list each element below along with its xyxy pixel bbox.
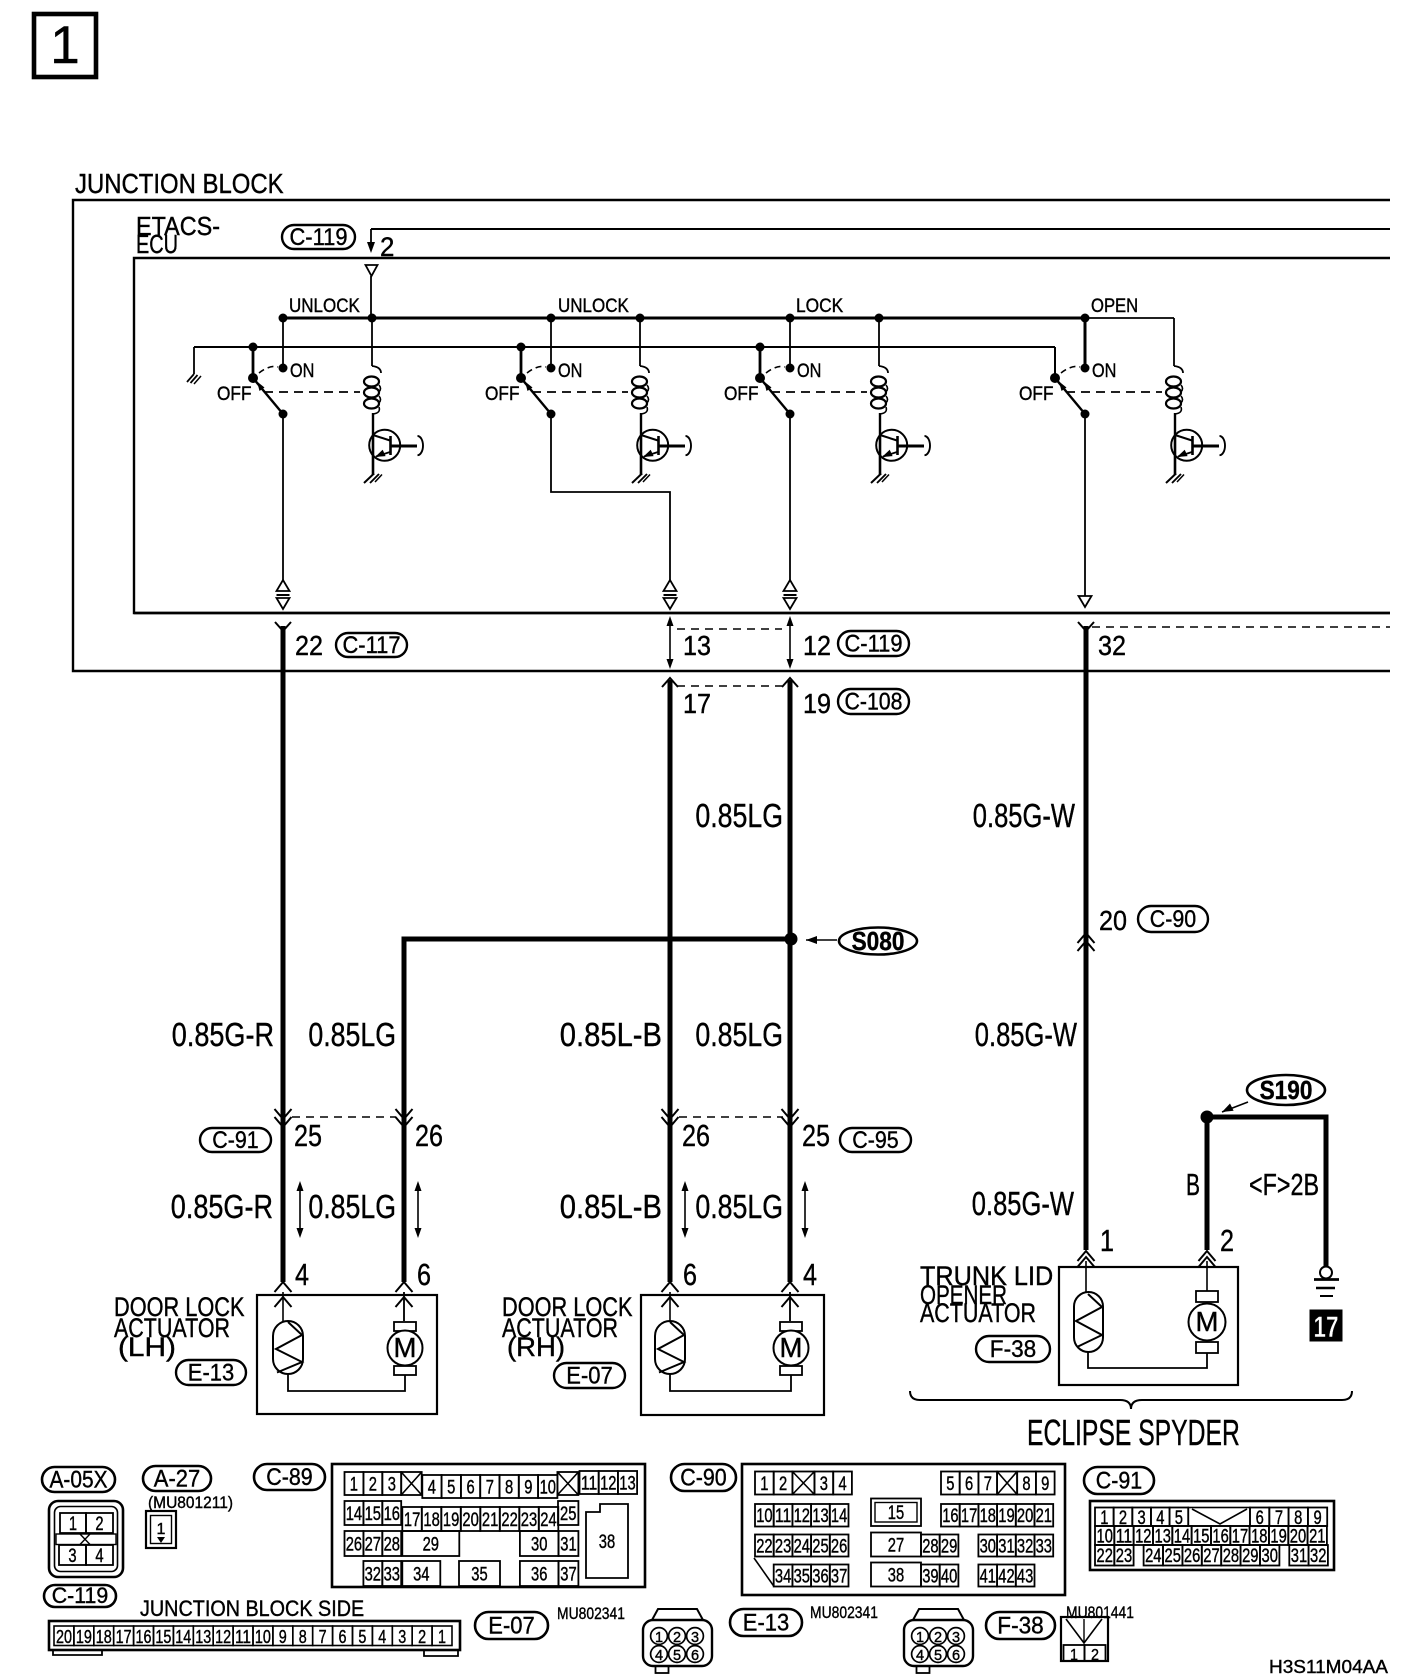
pin 2 down arrow	[367, 229, 394, 262]
connector C-89 pinout	[332, 1464, 645, 1587]
svg-text:ECLIPSE SPYDER: ECLIPSE SPYDER	[1027, 1412, 1240, 1453]
svg-text:S190: S190	[1260, 1077, 1313, 1105]
pass-through triangles x=670	[664, 580, 677, 609]
svg-text:31: 31	[560, 1535, 576, 1556]
svg-text:25: 25	[802, 1119, 830, 1153]
svg-text:18: 18	[423, 1510, 439, 1531]
svg-text:9: 9	[1041, 1474, 1049, 1495]
bus switch common (lower)	[194, 346, 1055, 348]
transistor Q2 ground	[632, 474, 650, 484]
svg-text:40: 40	[941, 1567, 957, 1588]
svg-text:C-119: C-119	[52, 1583, 109, 1608]
page number box 1	[34, 14, 96, 77]
svg-text:25: 25	[1165, 1546, 1181, 1567]
svg-text:4: 4	[839, 1474, 848, 1495]
svg-text:MU802341: MU802341	[557, 1604, 625, 1623]
transistor Q1	[369, 430, 423, 475]
svg-text:32: 32	[1310, 1546, 1326, 1567]
ground (bus left end)	[187, 374, 201, 384]
pass-through triangle relay4	[1079, 596, 1092, 607]
svg-text:33: 33	[384, 1565, 400, 1586]
relay 3 linkage dashed	[771, 391, 867, 393]
svg-text:0.85L-B: 0.85L-B	[560, 1017, 662, 1054]
wire relay1 output	[282, 414, 284, 581]
wire bus to ground	[193, 347, 195, 374]
connector C-89 capsule	[254, 1464, 325, 1491]
svg-text:27: 27	[888, 1536, 904, 1557]
svg-text:ACTUATOR: ACTUATOR	[920, 1298, 1036, 1328]
svg-text:28: 28	[1223, 1546, 1239, 1567]
connector C-90 pinout	[742, 1464, 1065, 1595]
relay 4 linkage dashed	[1066, 391, 1162, 393]
svg-text:ON: ON	[290, 361, 314, 382]
double arrow wire2	[415, 1181, 422, 1238]
relay 2 ON contact wire	[547, 314, 556, 368]
svg-text:39: 39	[922, 1567, 938, 1588]
svg-text:42: 42	[998, 1567, 1014, 1588]
svg-text:2: 2	[1220, 1224, 1234, 1258]
svg-text:20: 20	[1099, 905, 1127, 936]
svg-text:27: 27	[1203, 1546, 1219, 1567]
relay 2 switch blade	[516, 373, 556, 419]
svg-text:26: 26	[831, 1537, 847, 1558]
wire 19 (thick) below block	[782, 678, 798, 1282]
svg-text:UNLOCK: UNLOCK	[289, 295, 360, 317]
connector C-91 capsule (bottom)	[1084, 1467, 1154, 1494]
svg-text:A-05X: A-05X	[50, 1466, 108, 1493]
connector E-13 pinout (round)	[904, 1609, 973, 1673]
svg-text:18: 18	[96, 1626, 112, 1647]
wire 32 (thick) from block	[1078, 622, 1094, 1250]
svg-text:3: 3	[691, 1630, 699, 1646]
svg-text:C-95: C-95	[852, 1127, 898, 1154]
double arrow wire3	[682, 1181, 689, 1238]
connector A-27 pinout	[146, 1511, 176, 1548]
svg-text:2: 2	[418, 1626, 426, 1647]
svg-text:0.85L-B: 0.85L-B	[560, 1189, 662, 1226]
wire relay4 output	[1084, 414, 1086, 596]
motor M RH	[774, 1322, 809, 1375]
chevrons into connector x=283	[275, 1109, 292, 1127]
svg-text:22: 22	[501, 1510, 517, 1531]
relay 4 switch blade	[1050, 373, 1090, 419]
svg-text:20: 20	[56, 1626, 72, 1647]
relay 2 ON contact	[547, 361, 583, 382]
svg-text:30: 30	[1262, 1546, 1278, 1567]
svg-text:17: 17	[404, 1510, 420, 1531]
svg-text:9: 9	[279, 1626, 287, 1647]
svg-text:37: 37	[831, 1567, 847, 1588]
svg-text:13: 13	[683, 630, 711, 661]
svg-text:ON: ON	[797, 361, 821, 382]
connector E-13 capsule (bottom)	[730, 1609, 802, 1636]
wire pin6 internal LH	[403, 1292, 405, 1321]
svg-text:M: M	[780, 1332, 803, 1363]
svg-text:33: 33	[1036, 1537, 1052, 1558]
svg-text:6: 6	[417, 1258, 431, 1292]
svg-text:0.85LG: 0.85LG	[695, 1189, 783, 1226]
svg-text:34: 34	[775, 1567, 792, 1588]
svg-text:14: 14	[175, 1626, 191, 1647]
svg-text:25: 25	[294, 1119, 322, 1153]
connector C-119 (row)	[838, 630, 909, 657]
relay 3 switch blade	[755, 373, 795, 419]
svg-text:26: 26	[415, 1119, 443, 1153]
svg-text:8: 8	[299, 1626, 307, 1647]
pass-through triangles x=283	[277, 580, 290, 609]
svg-text:C-89: C-89	[266, 1464, 312, 1491]
resistor trunk	[1074, 1292, 1103, 1352]
trunk pin chevrons 2	[1199, 1251, 1216, 1291]
svg-text:0.85LG: 0.85LG	[695, 798, 783, 835]
resistor LH (lock solenoid)	[273, 1321, 303, 1374]
svg-text:10: 10	[540, 1478, 556, 1499]
svg-text:C-119: C-119	[845, 630, 903, 657]
svg-text:1: 1	[69, 1514, 77, 1535]
svg-text:C-91: C-91	[212, 1127, 258, 1154]
svg-text:E-13: E-13	[743, 1609, 789, 1636]
svg-text:MU801441: MU801441	[1066, 1603, 1134, 1622]
connector A-05X pinout	[49, 1501, 123, 1577]
svg-text:2: 2	[934, 1630, 942, 1646]
svg-text:30: 30	[980, 1537, 996, 1558]
svg-text:4: 4	[428, 1478, 437, 1499]
relay 1 coil	[364, 314, 381, 436]
motor M LH	[388, 1322, 423, 1375]
svg-text:35: 35	[794, 1567, 810, 1588]
pass-through triangles x=790	[784, 580, 797, 609]
svg-text:1: 1	[157, 1521, 166, 1538]
svg-text:13: 13	[619, 1474, 635, 1495]
ground ref 17 box	[1310, 1310, 1342, 1344]
svg-text:0.85LG: 0.85LG	[695, 1017, 783, 1054]
svg-text:2: 2	[779, 1474, 787, 1495]
relay 3 switch throw dashed arc	[766, 366, 785, 373]
svg-text:26: 26	[682, 1119, 710, 1153]
svg-text:12: 12	[794, 1506, 810, 1527]
double arrow wire4	[802, 1181, 809, 1238]
svg-text:5: 5	[447, 1478, 455, 1499]
svg-text:5: 5	[673, 1648, 681, 1664]
connector F-38 pinout	[1061, 1617, 1108, 1664]
relay 3 ON contact	[786, 361, 822, 382]
svg-text:1: 1	[655, 1630, 663, 1646]
svg-text:17: 17	[961, 1506, 977, 1527]
connector E-13 capsule	[176, 1359, 246, 1386]
svg-text:F-38: F-38	[990, 1336, 1036, 1363]
splice S190	[1201, 1075, 1326, 1124]
svg-text:(LH): (LH)	[118, 1332, 176, 1362]
svg-text:ON: ON	[1092, 361, 1116, 382]
wire 12 pass-through	[787, 616, 794, 669]
svg-text:1: 1	[1100, 1224, 1114, 1258]
svg-text:4: 4	[916, 1648, 924, 1664]
svg-text:OFF: OFF	[724, 384, 759, 405]
connector C-91 pinout	[1090, 1501, 1334, 1570]
svg-text:16: 16	[136, 1626, 152, 1647]
svg-text:6: 6	[952, 1648, 960, 1664]
svg-text:LOCK: LOCK	[796, 295, 843, 317]
svg-text:5: 5	[358, 1626, 366, 1647]
svg-text:10: 10	[255, 1626, 271, 1647]
svg-text:6: 6	[965, 1474, 973, 1495]
svg-text:8: 8	[505, 1478, 513, 1499]
svg-text:16: 16	[942, 1506, 958, 1527]
connector F-38 capsule	[976, 1336, 1050, 1363]
svg-text:0.85G-W: 0.85G-W	[973, 798, 1075, 835]
connector E-07 capsule (bottom)	[475, 1612, 548, 1639]
bus upper thin segment to relay4 coil	[1085, 317, 1174, 319]
connector C-119 (top)	[282, 224, 355, 251]
svg-text:6: 6	[339, 1626, 347, 1647]
connector C-108	[838, 688, 909, 715]
svg-text:JUNCTION BLOCK SIDE: JUNCTION BLOCK SIDE	[140, 1596, 364, 1621]
door lock actuator LH box	[257, 1295, 437, 1414]
relay 1 switch blade	[248, 373, 288, 419]
svg-text:43: 43	[1017, 1567, 1033, 1588]
svg-text:MU802341: MU802341	[810, 1603, 878, 1622]
svg-text:35: 35	[471, 1565, 487, 1586]
svg-text:38: 38	[888, 1566, 904, 1587]
svg-text:29: 29	[1242, 1546, 1258, 1567]
relay 1 ON contact wire	[279, 314, 288, 368]
svg-text:25: 25	[812, 1537, 828, 1558]
wire relay3 output	[789, 414, 791, 581]
label ETACS-ECU	[136, 213, 220, 259]
connector A-27 capsule	[143, 1465, 211, 1492]
svg-text:16: 16	[384, 1504, 400, 1525]
chevrons into connector x=670	[662, 1109, 679, 1127]
dashed connector line C-108 row	[677, 685, 782, 687]
door lock actuator RH box	[641, 1295, 824, 1415]
svg-text:4: 4	[95, 1546, 104, 1567]
svg-text:6: 6	[683, 1258, 697, 1292]
connector F-38 capsule (bottom)	[986, 1612, 1055, 1639]
relay 4 ON contact	[1081, 361, 1117, 382]
svg-text:JUNCTION BLOCK: JUNCTION BLOCK	[75, 168, 284, 199]
svg-text:17: 17	[683, 688, 711, 719]
junction block outer box	[73, 200, 1390, 671]
svg-text:0.85LG: 0.85LG	[308, 1189, 396, 1226]
svg-text:1: 1	[50, 16, 79, 75]
svg-text:22: 22	[1097, 1546, 1113, 1567]
transistor Q4	[1171, 430, 1225, 475]
dashed connector line C-119 row	[677, 628, 782, 630]
svg-text:7: 7	[319, 1626, 327, 1647]
bus UNLOCK/LOCK/OPEN (upper)	[282, 317, 1085, 320]
svg-text:4: 4	[378, 1626, 386, 1647]
svg-text:2: 2	[95, 1514, 103, 1535]
svg-text:24: 24	[794, 1537, 811, 1558]
brace ECLIPSE SPYDER	[910, 1391, 1352, 1409]
dashed connector line C-91	[292, 1116, 396, 1118]
svg-text:4: 4	[803, 1258, 817, 1292]
svg-text:10: 10	[756, 1506, 772, 1527]
transistor Q4 ground	[1166, 474, 1184, 484]
svg-text:18: 18	[980, 1506, 996, 1527]
svg-text:19: 19	[76, 1626, 92, 1647]
svg-text:M: M	[394, 1332, 417, 1363]
relay 2 linkage dashed	[532, 391, 628, 393]
svg-text:OPEN: OPEN	[1091, 295, 1138, 317]
svg-text:2: 2	[1091, 1647, 1099, 1664]
svg-text:11: 11	[235, 1626, 251, 1647]
svg-text:22: 22	[295, 630, 323, 661]
svg-text:14: 14	[346, 1504, 363, 1525]
svg-text:32: 32	[365, 1565, 381, 1586]
splice S190 wires (thick)	[1207, 1117, 1326, 1267]
svg-text:8: 8	[1022, 1474, 1030, 1495]
svg-text:C-90: C-90	[1150, 906, 1196, 933]
relay 3 coil	[871, 314, 888, 436]
svg-text:6: 6	[467, 1478, 475, 1499]
svg-text:29: 29	[941, 1537, 957, 1558]
svg-text:12: 12	[600, 1474, 616, 1495]
svg-text:11: 11	[775, 1506, 791, 1527]
svg-text:E-07: E-07	[566, 1362, 612, 1389]
wire 22 (thick) from block	[275, 622, 291, 1282]
wire pin2 to coil bus	[370, 276, 372, 318]
svg-text:7: 7	[984, 1474, 992, 1495]
svg-text:19: 19	[443, 1510, 459, 1531]
svg-text:11: 11	[581, 1474, 597, 1495]
connector E-07 capsule	[554, 1362, 625, 1389]
svg-text:(RH): (RH)	[507, 1332, 565, 1362]
svg-text:19: 19	[998, 1506, 1014, 1527]
wire relay2 output (jog)	[551, 414, 670, 581]
svg-text:34: 34	[413, 1565, 430, 1586]
svg-text:20: 20	[462, 1510, 478, 1531]
dashed line right of relay4 wire	[1092, 626, 1390, 628]
svg-text:12: 12	[803, 630, 831, 661]
svg-text:OFF: OFF	[217, 384, 252, 405]
svg-text:13: 13	[195, 1626, 211, 1647]
svg-text:A-27: A-27	[154, 1465, 200, 1492]
trunk lid opener labels	[920, 1261, 1053, 1328]
wire RH internal	[670, 1374, 791, 1391]
trunk pin chevrons 1	[1078, 1251, 1095, 1292]
svg-text:3: 3	[820, 1474, 828, 1495]
svg-text:19: 19	[803, 688, 831, 719]
wire 13 pass-through	[667, 616, 674, 669]
svg-text:28: 28	[384, 1535, 400, 1556]
double arrow wire1	[297, 1181, 304, 1238]
svg-text:1: 1	[1070, 1647, 1078, 1664]
svg-text:4: 4	[655, 1648, 663, 1664]
svg-text:0.85G-W: 0.85G-W	[972, 1186, 1074, 1223]
svg-text:OFF: OFF	[1019, 384, 1054, 405]
svg-text:15: 15	[365, 1504, 381, 1525]
svg-text:26: 26	[1184, 1546, 1200, 1567]
inner box bottom edge	[134, 612, 1390, 614]
wire from C-119 pin 2	[371, 228, 1390, 230]
svg-text:1: 1	[438, 1626, 446, 1647]
ETACS-ECU inner box	[134, 258, 1390, 613]
pin chevrons x=283	[275, 1282, 292, 1321]
svg-text:3: 3	[952, 1630, 960, 1646]
motor M trunk	[1189, 1291, 1226, 1353]
relay 4 coil	[1166, 318, 1183, 435]
relay 3 ON contact wire	[786, 314, 795, 368]
svg-text:<F>2B: <F>2B	[1249, 1168, 1319, 1202]
svg-text:5: 5	[946, 1474, 954, 1495]
svg-text:17: 17	[116, 1626, 132, 1647]
svg-text:0.85G-R: 0.85G-R	[171, 1189, 273, 1226]
svg-text:41: 41	[980, 1567, 996, 1588]
svg-text:3: 3	[388, 1475, 396, 1496]
svg-text:22: 22	[756, 1537, 772, 1558]
trunk lid opener actuator box	[1059, 1267, 1238, 1385]
svg-text:15: 15	[155, 1626, 171, 1647]
svg-text:2: 2	[673, 1630, 681, 1646]
dashed connector line C-95	[679, 1116, 783, 1118]
connector A-05X capsule	[42, 1466, 115, 1493]
svg-text:C-119: C-119	[290, 224, 348, 251]
pin chevrons x=790	[782, 1282, 799, 1321]
svg-text:30: 30	[531, 1535, 547, 1556]
svg-text:36: 36	[531, 1565, 547, 1586]
wire pin4 internal RH	[789, 1292, 791, 1321]
svg-text:9: 9	[524, 1478, 532, 1499]
transistor Q3	[876, 430, 930, 475]
connector C-90 capsule	[671, 1464, 736, 1491]
connector C-90 (row)	[1138, 906, 1208, 933]
svg-text:5: 5	[934, 1648, 942, 1664]
splice S080	[785, 928, 918, 957]
svg-text:7: 7	[486, 1478, 494, 1499]
svg-text:37: 37	[560, 1565, 576, 1586]
svg-text:C-91: C-91	[1096, 1467, 1142, 1494]
svg-text:17: 17	[1314, 1311, 1339, 1344]
svg-text:36: 36	[812, 1567, 828, 1588]
svg-text:13: 13	[812, 1506, 828, 1527]
svg-text:27: 27	[365, 1535, 381, 1556]
svg-text:0.85LG: 0.85LG	[308, 1017, 396, 1054]
svg-text:15: 15	[888, 1503, 904, 1524]
svg-text:20: 20	[1017, 1506, 1033, 1527]
wire S080 branch (thick)	[404, 939, 791, 1282]
resistor RH	[655, 1321, 685, 1374]
svg-text:ON: ON	[558, 361, 582, 382]
connector C-95 (row)	[840, 1127, 911, 1154]
svg-text:32: 32	[1017, 1537, 1033, 1558]
transistor Q1 ground	[364, 474, 382, 484]
transistor Q3 ground	[871, 474, 889, 484]
svg-text:6: 6	[691, 1648, 699, 1664]
svg-text:26: 26	[346, 1535, 362, 1556]
svg-text:28: 28	[922, 1537, 938, 1558]
svg-text:23: 23	[1116, 1546, 1132, 1567]
transistor Q2	[637, 430, 691, 475]
relay 2 coil	[632, 314, 649, 436]
svg-text:S080: S080	[852, 928, 905, 956]
relay 1 switch pivot feed	[249, 343, 258, 379]
svg-text:32: 32	[1098, 630, 1126, 661]
ground (body) right	[1314, 1267, 1339, 1297]
svg-text:21: 21	[1036, 1506, 1052, 1527]
svg-text:E-07: E-07	[488, 1612, 534, 1639]
svg-text:14: 14	[831, 1506, 848, 1527]
svg-text:C-108: C-108	[845, 688, 903, 715]
svg-text:0.85G-R: 0.85G-R	[172, 1017, 274, 1054]
svg-text:B: B	[1186, 1168, 1200, 1202]
svg-text:12: 12	[215, 1626, 231, 1647]
svg-text:0.85G-W: 0.85G-W	[975, 1017, 1077, 1054]
relay 4 ON contact wire	[1081, 314, 1090, 368]
svg-text:C-117: C-117	[343, 632, 401, 659]
pin chevrons x=670	[662, 1282, 679, 1321]
chevrons into connector x=790	[782, 1109, 799, 1127]
